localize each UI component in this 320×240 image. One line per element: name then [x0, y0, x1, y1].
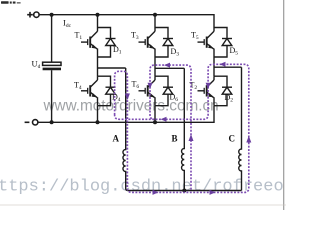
svg-text:B: B	[172, 134, 178, 144]
svg-text:D4: D4	[112, 93, 121, 104]
svg-text:T3: T3	[131, 31, 139, 42]
svg-text:D3: D3	[171, 47, 180, 58]
svg-text:www.motordrivers.com.cn: www.motordrivers.com.cn	[43, 98, 219, 115]
svg-text:T5: T5	[191, 31, 199, 42]
svg-text:D1: D1	[113, 45, 122, 56]
svg-text:T1: T1	[75, 31, 83, 42]
svg-text:Idc: Idc	[63, 18, 72, 30]
svg-text:Ud: Ud	[32, 59, 41, 71]
svg-text:D5: D5	[230, 46, 239, 57]
svg-text:T6: T6	[132, 80, 140, 91]
svg-text:A: A	[113, 134, 120, 144]
svg-text:D6: D6	[170, 93, 179, 104]
svg-text:T4: T4	[74, 81, 82, 92]
svg-text:C: C	[229, 134, 236, 144]
